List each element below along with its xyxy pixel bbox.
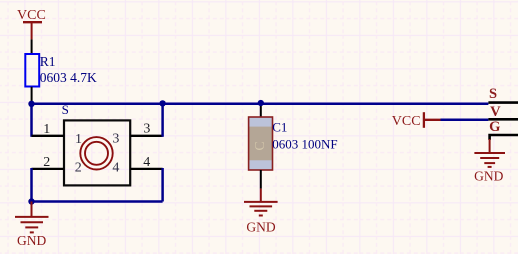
wire R1 to node [31, 87, 33, 104]
capacitor C1 pin lower [260, 170, 262, 189]
wire rail to pin1 [30, 104, 33, 137]
svg-text:2: 2 [75, 161, 82, 176]
wire main rail [32, 103, 489, 106]
svg-text:G: G [489, 119, 500, 135]
ground GND (right) [474, 139, 505, 167]
node junction bottom left [28, 198, 34, 204]
svg-text:1: 1 [75, 132, 82, 147]
node junction C1 rail [258, 100, 264, 106]
switch button outer circle [80, 137, 112, 169]
svg-text:GND: GND [17, 233, 46, 248]
wire bottom ground rail [32, 200, 163, 203]
capacitor C1 body [249, 117, 273, 170]
svg-text:S: S [489, 86, 497, 102]
wire rail to pin3 [161, 104, 164, 137]
port line S [488, 101, 518, 104]
svg-text:1: 1 [43, 122, 50, 137]
switch S body [64, 120, 130, 185]
wire VCC to R1 [31, 39, 33, 53]
svg-text:GND: GND [246, 220, 275, 235]
svg-text:C1: C1 [272, 120, 287, 135]
resistor R1 [25, 54, 39, 87]
svg-text:C: C [253, 141, 268, 150]
pin 3 stub [130, 135, 162, 137]
pin 4 stub [130, 168, 162, 170]
svg-text:GND: GND [474, 169, 503, 184]
svg-text:4: 4 [143, 155, 150, 170]
svg-text:0603 100NF: 0603 100NF [272, 137, 337, 152]
capacitor C1 pin upper [260, 104, 262, 118]
wire pin2 to ground rail [30, 168, 33, 202]
power port VCC (left) [17, 8, 46, 39]
svg-text:2: 2 [43, 155, 50, 170]
svg-text:VCC: VCC [392, 114, 421, 129]
svg-text:V: V [490, 104, 501, 120]
pin 2 stub [32, 168, 65, 170]
wire pin4 down [161, 168, 164, 202]
node junction left rail [28, 101, 34, 107]
power port VCC (right) [392, 112, 441, 129]
svg-text:3: 3 [112, 132, 119, 147]
switch button inner circle [85, 142, 108, 165]
ground GND (middle) [244, 189, 278, 216]
svg-text:S: S [62, 102, 69, 117]
svg-text:VCC: VCC [17, 8, 46, 23]
port line V [488, 118, 518, 121]
svg-text:0603 4.7K: 0603 4.7K [40, 70, 97, 85]
wire VCC to V port [441, 119, 489, 122]
node junction pin3 rail [159, 100, 165, 106]
port line G [490, 135, 518, 140]
svg-text:R1: R1 [40, 54, 56, 69]
pin 1 stub [32, 135, 65, 137]
ground GND (left) [15, 202, 49, 233]
svg-text:3: 3 [143, 122, 150, 137]
svg-text:4: 4 [112, 161, 119, 176]
